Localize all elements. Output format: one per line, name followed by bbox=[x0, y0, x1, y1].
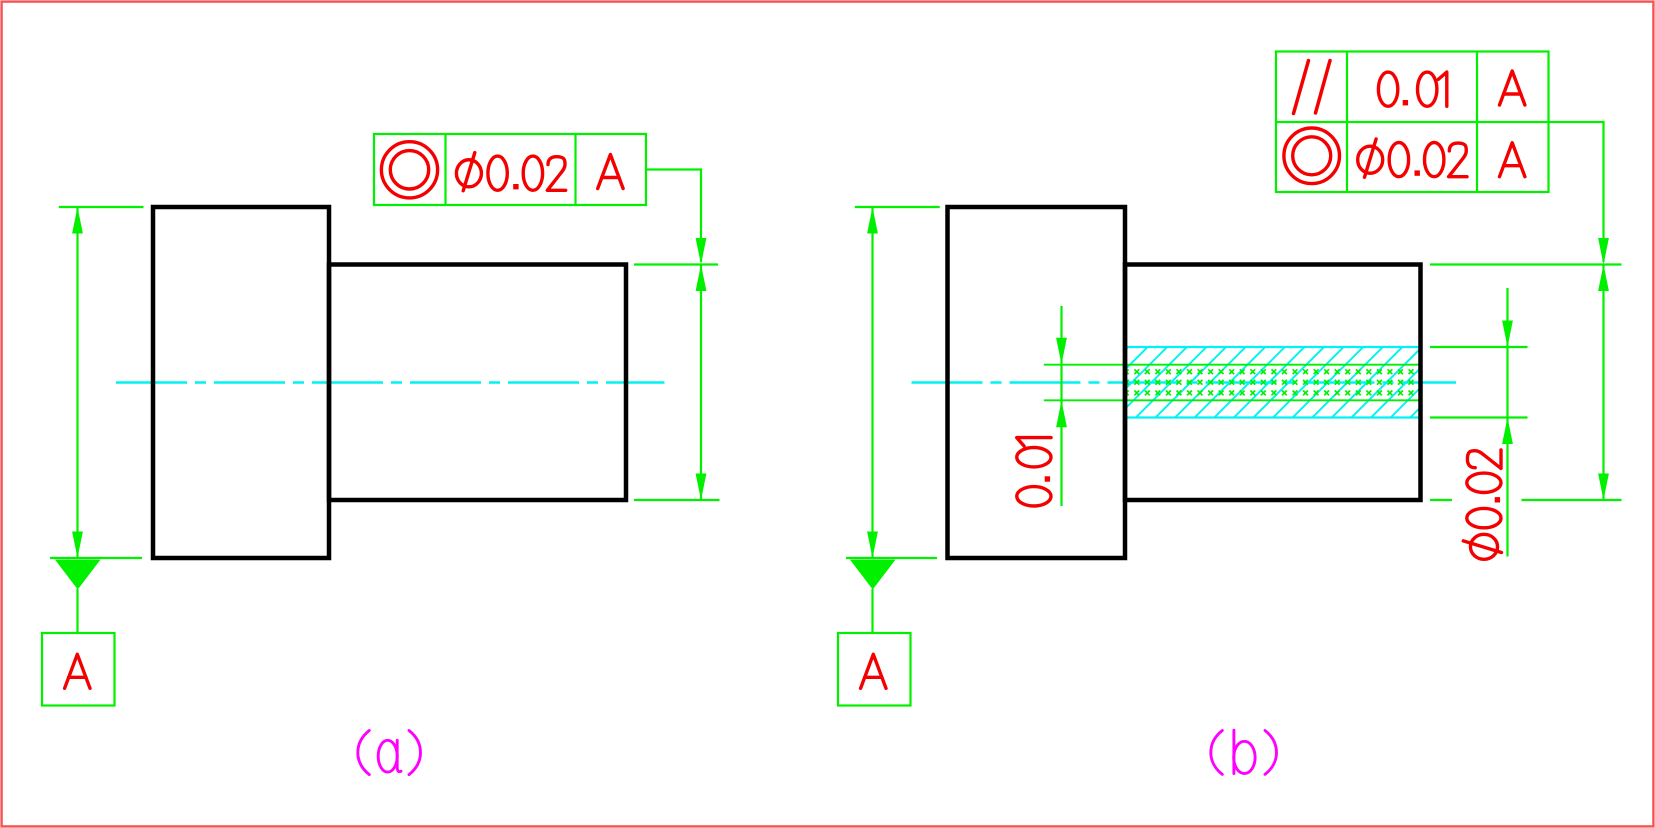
datum leader stem (a) bbox=[76, 589, 78, 633]
feature control frame (b) bbox=[1276, 52, 1549, 193]
parallelism width dimension 0.01 (b) bbox=[1056, 306, 1067, 506]
concentricity symbol (b frame) bbox=[1284, 128, 1340, 184]
hatch zone boundary lines (b) bbox=[1125, 346, 1421, 348]
datum letter A row1 (b frame) bbox=[1500, 71, 1525, 105]
tolerance value Φ0.02 (a) bbox=[456, 153, 565, 191]
leader from frame (b) bbox=[1549, 122, 1604, 262]
rotated text 0.01 (b) bbox=[1017, 438, 1051, 506]
datum leader stem (b) bbox=[871, 589, 873, 633]
left height dimension (b) bbox=[846, 207, 940, 558]
datum box A (b) bbox=[838, 633, 911, 706]
feature control frame (a) bbox=[374, 134, 646, 205]
tolerance value 0.01 (b frame) bbox=[1378, 72, 1446, 106]
leader from frame (a) bbox=[646, 170, 701, 263]
shaft outline (b) bbox=[1125, 265, 1421, 501]
caption (b) bbox=[1211, 730, 1277, 774]
datum feature triangle A (a) bbox=[55, 560, 101, 590]
shaft diameter dimension (b) bbox=[1430, 265, 1622, 501]
concentricity symbol (a) bbox=[381, 142, 437, 198]
rotated text Φ0.02 (b) bbox=[1463, 450, 1501, 559]
datum feature triangle A (b) bbox=[850, 560, 896, 590]
datum box A (a) bbox=[42, 633, 115, 706]
tolerance value Φ0.02 (b frame) bbox=[1358, 139, 1467, 177]
centerline (b) bbox=[912, 381, 1457, 384]
figure (b) bbox=[838, 52, 1622, 775]
datum letter A (b) bbox=[861, 654, 886, 688]
datum reference letter A in frame (a) bbox=[598, 155, 623, 189]
centerline (a) bbox=[116, 381, 665, 384]
parallelism symbol // (b) bbox=[1294, 61, 1331, 114]
datum letter A row2 (b frame) bbox=[1500, 143, 1525, 177]
large block outline (a) bbox=[153, 207, 329, 558]
shaft diameter dimension (a) bbox=[634, 265, 720, 501]
datum letter A (a) bbox=[65, 654, 90, 688]
caption (a) bbox=[358, 731, 421, 775]
parallelism zone boundary lines 0.01 (b) bbox=[1044, 364, 1421, 366]
large block outline (b) bbox=[948, 207, 1126, 558]
zone dimension Φ0.02 (b) bbox=[1430, 288, 1528, 557]
figure (a) bbox=[42, 134, 720, 775]
left height dimension (a) bbox=[50, 207, 144, 558]
shaft outline (a) bbox=[329, 265, 626, 501]
